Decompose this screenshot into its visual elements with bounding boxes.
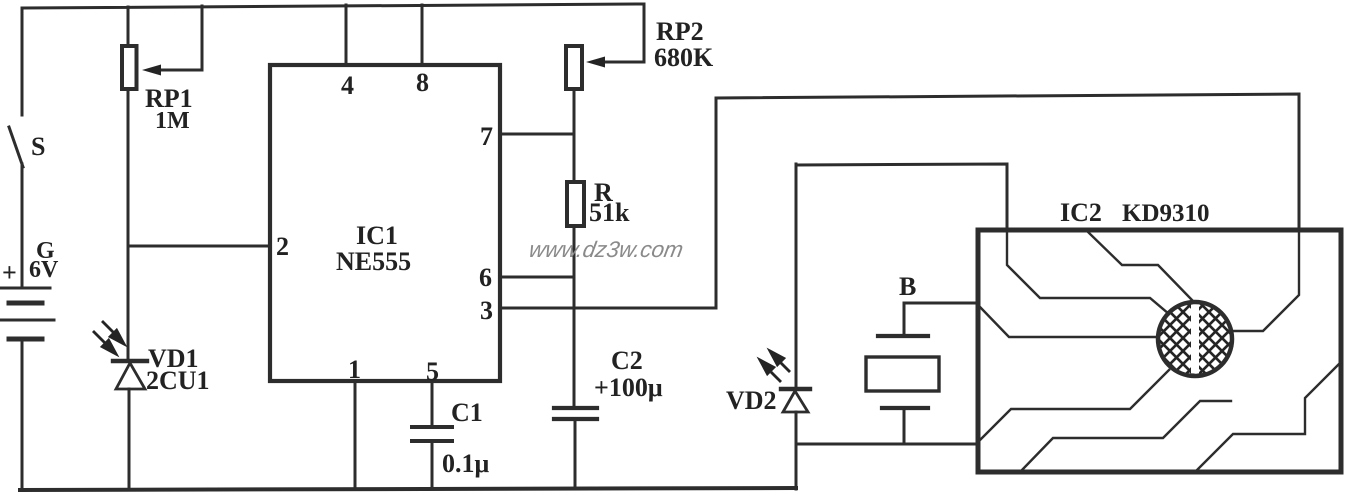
svg-text:+100μ: +100μ <box>594 373 663 402</box>
svg-text:2CU1: 2CU1 <box>146 366 210 395</box>
svg-text:6V: 6V <box>29 257 59 283</box>
svg-text:IC1: IC1 <box>356 221 398 250</box>
svg-text:B: B <box>899 272 916 301</box>
svg-text:0.1μ: 0.1μ <box>442 449 490 478</box>
svg-text:2: 2 <box>276 232 289 261</box>
svg-text:www.dz3w.com: www.dz3w.com <box>527 236 685 262</box>
svg-text:8: 8 <box>416 68 429 97</box>
svg-text:1M: 1M <box>155 108 190 134</box>
svg-text:NE555: NE555 <box>336 247 411 276</box>
svg-text:C2: C2 <box>611 346 643 375</box>
svg-text:+: + <box>2 258 17 287</box>
svg-text:KD9310: KD9310 <box>1122 200 1210 227</box>
svg-text:1: 1 <box>348 355 361 384</box>
svg-text:3: 3 <box>480 296 493 325</box>
svg-text:IC2: IC2 <box>1060 198 1102 227</box>
svg-text:S: S <box>31 132 45 161</box>
svg-text:6: 6 <box>479 263 492 292</box>
svg-text:5: 5 <box>426 357 439 386</box>
svg-text:4: 4 <box>341 71 354 100</box>
svg-text:680K: 680K <box>654 43 714 72</box>
svg-text:VD2: VD2 <box>726 386 777 415</box>
svg-text:RP2: RP2 <box>656 17 704 46</box>
svg-text:C1: C1 <box>451 398 483 427</box>
svg-text:7: 7 <box>480 122 493 151</box>
svg-text:51k: 51k <box>589 198 630 227</box>
